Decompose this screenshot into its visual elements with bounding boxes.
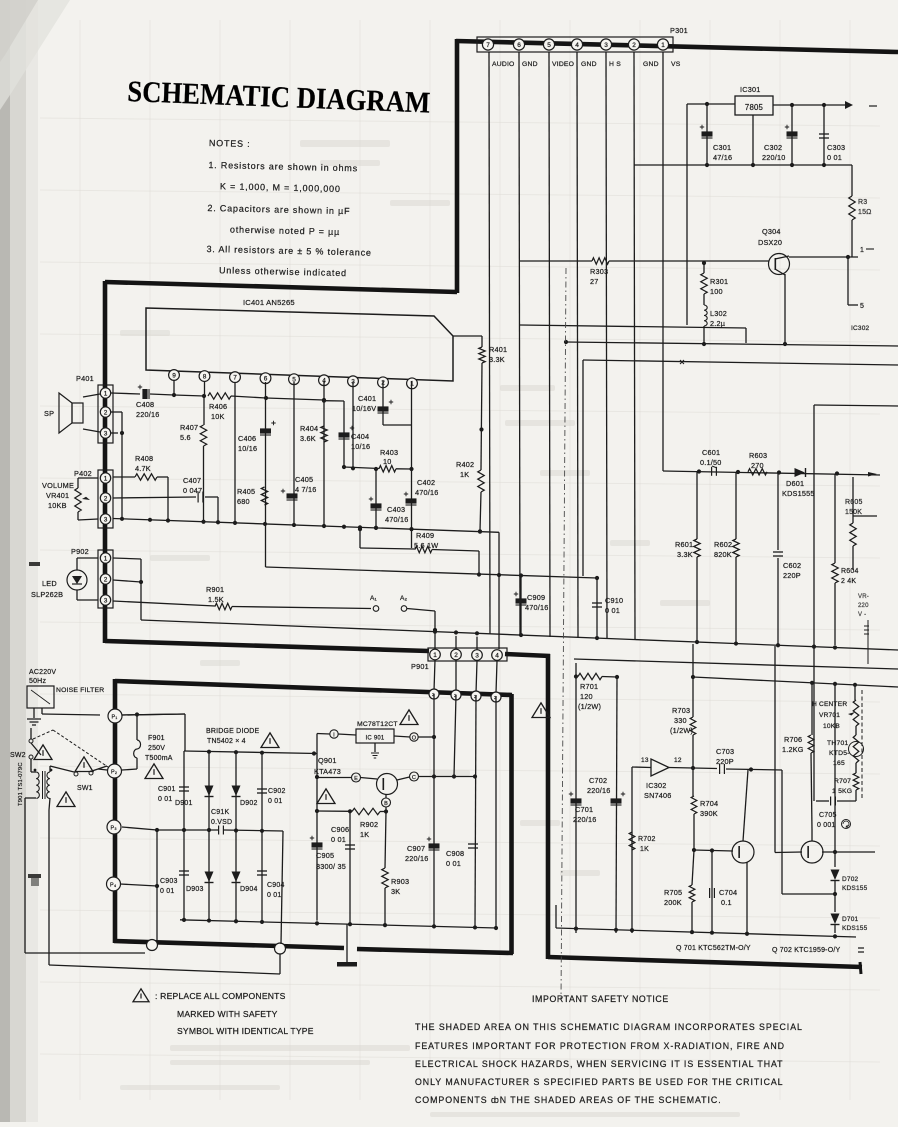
- wire IC401 pin4 drop: [323, 381, 325, 526]
- svg-text:IMPORTANT SAFETY NOTICE: IMPORTANT SAFETY NOTICE: [532, 994, 669, 1004]
- svg-text:1: 1: [410, 381, 414, 388]
- svg-text:2: 2: [104, 576, 108, 583]
- wire IC401 pin7 drop: [234, 382, 236, 523]
- svg-text:3.6K: 3.6K: [300, 434, 316, 443]
- svg-text:NOTES :: NOTES :: [209, 138, 251, 149]
- terminal P3: [107, 820, 121, 834]
- svg-text:C401: C401: [358, 394, 376, 403]
- capacitor C909: [514, 576, 549, 635]
- svg-text:2: 2: [454, 652, 458, 659]
- svg-text:D601: D601: [786, 479, 804, 488]
- svg-text:C302: C302: [764, 143, 782, 152]
- svg-text:KTA473: KTA473: [314, 767, 341, 776]
- fold dash-dot line: [561, 268, 566, 1000]
- svg-text:6: 6: [517, 42, 521, 49]
- svg-text:3.3K: 3.3K: [489, 355, 505, 364]
- wire GND from P301-4: [577, 52, 578, 638]
- svg-text:(1/2W): (1/2W): [670, 726, 693, 735]
- wire y325 branch: [520, 325, 746, 328]
- svg-text:IC301: IC301: [740, 85, 760, 94]
- wire P401-2 jog: [111, 411, 122, 413]
- resistor R705: [664, 850, 695, 932]
- svg-text:ELECTRICAL SHOCK HAZARDS, W: ELECTRICAL SHOCK HAZARDS, WHEN SERVICING…: [415, 1059, 784, 1069]
- capacitor C703: [716, 747, 782, 774]
- svg-text:D701: D701: [842, 916, 859, 923]
- capacitor C408: [111, 385, 174, 419]
- mechanical link dashed: [33, 730, 53, 739]
- svg-text:C402: C402: [417, 478, 435, 487]
- svg-text:1: 1: [104, 475, 108, 482]
- svg-text:I: I: [333, 733, 335, 739]
- svg-text:0 01: 0 01: [827, 153, 842, 162]
- warning triangle near F901: [145, 764, 163, 779]
- wire bus y575: [266, 567, 598, 578]
- svg-text:SP: SP: [44, 409, 54, 418]
- svg-text:0.1: 0.1: [721, 898, 732, 907]
- svg-text:220/16: 220/16: [587, 786, 611, 795]
- svg-text:0 01: 0 01: [158, 796, 172, 803]
- svg-text:C904: C904: [267, 882, 285, 889]
- svg-text:R601: R601: [675, 540, 693, 549]
- capacitor C407: [113, 476, 218, 522]
- svg-text:0 01: 0 01: [160, 888, 174, 895]
- warning triangle near SW2: [34, 745, 52, 760]
- diode D601: [782, 468, 815, 498]
- resistor R704: [691, 768, 718, 850]
- svg-text:220/16: 220/16: [405, 854, 429, 863]
- svg-text:R704: R704: [700, 799, 718, 808]
- wire R601 extension to bus: [696, 577, 698, 643]
- wire GND from P301-2: [634, 52, 635, 640]
- diode D902: [232, 752, 258, 830]
- wire transformer secondary bottom right: [49, 798, 50, 810]
- svg-text:C908: C908: [446, 849, 464, 858]
- warning triangle right of IC901: [532, 703, 550, 718]
- warning triangle transformer: [57, 792, 75, 807]
- ground stem power: [346, 924, 348, 962]
- svg-text:KDS1555: KDS1555: [782, 489, 815, 498]
- wire x475 vertical: [475, 695, 476, 927]
- wire mid bus left drop: [156, 830, 158, 941]
- wire base bus y811: [317, 810, 350, 812]
- svg-text:C403: C403: [387, 505, 405, 514]
- svg-text:COMPONENTS ȸN THE SHADED A: COMPONENTS ȸN THE SHADED AREAS OF THE SC…: [415, 1095, 722, 1105]
- svg-text:C902: C902: [268, 788, 286, 795]
- svg-text:4: 4: [495, 652, 499, 659]
- capacitor C91K series: [211, 809, 232, 835]
- svg-text:C601: C601: [702, 448, 720, 457]
- capacitor C705: [816, 797, 856, 830]
- inverter IC302 SN7406: [632, 757, 682, 800]
- svg-text:2: 2: [104, 409, 108, 416]
- svg-text:P₁: P₁: [112, 715, 118, 721]
- svg-text:3: 3: [104, 597, 108, 604]
- resistor R402: [456, 460, 484, 533]
- node O output circle: [410, 733, 418, 741]
- capacitor C302: [762, 105, 798, 165]
- svg-text:10KB: 10KB: [48, 501, 67, 510]
- svg-text:R605: R605: [845, 499, 863, 506]
- svg-text:0 01: 0 01: [446, 859, 461, 868]
- svg-text:Q304: Q304: [762, 227, 781, 236]
- dashed vertical right edge: [861, 690, 863, 800]
- resistor R706: [782, 682, 814, 830]
- svg-text:H S: H S: [609, 61, 621, 68]
- svg-text:D702: D702: [842, 876, 859, 883]
- svg-text:27: 27: [590, 277, 599, 286]
- warning triangle IC901: [400, 710, 418, 725]
- IC301 7805 regulator: [735, 85, 773, 115]
- capacitor C907: [405, 837, 440, 863]
- wire bottom bus 700: [556, 928, 856, 937]
- svg-text:1: 1: [860, 247, 864, 254]
- wire GND from P301-6: [519, 52, 520, 636]
- svg-text:3: 3: [104, 430, 108, 437]
- potentiometer VR701 H CENTER: [812, 685, 859, 730]
- wire Q304 emitter: [784, 274, 786, 344]
- svg-text:T901 TS1-079C: T901 TS1-079C: [18, 762, 24, 806]
- wire x496 vertical: [495, 696, 497, 928]
- svg-text:SYMBOL WITH IDENTICAL TYPE: SYMBOL WITH IDENTICAL TYPE: [177, 1026, 314, 1036]
- svg-text:1.2KG: 1.2KG: [782, 745, 804, 754]
- svg-text:KTD5-: KTD5-: [829, 750, 850, 757]
- wire IC401 pin5 drop: [293, 382, 295, 525]
- svg-text:165: 165: [833, 760, 845, 767]
- scan left gray band: [0, 0, 10, 1122]
- wire C701 vertical: [575, 677, 577, 934]
- wire transformer secondary bottom left: [25, 797, 36, 799]
- svg-text:220/16: 220/16: [573, 815, 597, 824]
- diode D701: [831, 881, 868, 933]
- wire P901-2 up: [455, 636, 457, 649]
- svg-text:H CENTER: H CENTER: [812, 701, 847, 708]
- svg-text:5: 5: [547, 42, 551, 49]
- svg-text:D903: D903: [186, 886, 204, 893]
- svg-text:R701: R701: [580, 682, 598, 691]
- right edge dashes: [864, 626, 869, 634]
- svg-text:10: 10: [383, 457, 392, 466]
- wire bridge mid bus left: [157, 829, 218, 831]
- wire y360 branch: [583, 360, 898, 365]
- svg-text:5.6: 5.6: [180, 433, 191, 442]
- svg-text:3K: 3K: [391, 887, 400, 896]
- connector P402: [74, 469, 113, 528]
- svg-text:R402: R402: [456, 460, 474, 469]
- wire transformer to SW1: [49, 766, 51, 772]
- svg-text:10KB: 10KB: [823, 723, 840, 730]
- svg-text:R407: R407: [180, 423, 198, 432]
- resistor R304 right edge: [849, 165, 872, 257]
- svg-text:10/16V: 10/16V: [352, 404, 376, 413]
- svg-text:C408: C408: [136, 400, 154, 409]
- wire IC901 to O: [394, 736, 410, 737]
- svg-text:1K: 1K: [460, 470, 469, 479]
- wire bus corner to P901-4: [498, 532, 500, 649]
- wire IC401 pin3 drop: [352, 382, 354, 468]
- resistor R602: [714, 472, 739, 578]
- svg-text:R705: R705: [664, 888, 682, 897]
- resistor R604: [832, 563, 859, 585]
- svg-text:470/16: 470/16: [385, 515, 409, 524]
- svg-text:LED: LED: [42, 579, 57, 588]
- resistor R707: [832, 763, 859, 801]
- wire to terminal S1: [147, 940, 158, 951]
- svg-text:390K: 390K: [700, 809, 718, 818]
- svg-text:7805: 7805: [745, 103, 764, 112]
- terminal 2b-1: [429, 689, 439, 699]
- svg-text:50Hz: 50Hz: [29, 678, 46, 685]
- svg-text:7: 7: [486, 42, 490, 49]
- capacitor C903: [160, 830, 189, 920]
- svg-text:AC220V: AC220V: [29, 669, 56, 676]
- power supply box border right: [509, 694, 514, 954]
- capacitor C702: [587, 776, 625, 805]
- svg-text:3: 3: [604, 42, 608, 49]
- shaded area border y641 to P901: [105, 641, 429, 651]
- wire R409 drop x479: [478, 551, 480, 575]
- shaded area border bottom right: [548, 957, 862, 967]
- svg-text:220/10: 220/10: [762, 153, 786, 162]
- svg-text:VOLUME: VOLUME: [42, 481, 74, 490]
- svg-text:C: C: [412, 775, 416, 781]
- resistor R903: [382, 812, 409, 926]
- svg-text:2: 2: [104, 495, 108, 502]
- capacitor C908: [446, 844, 478, 868]
- terminal P2: [108, 764, 122, 778]
- svg-text:R406: R406: [209, 402, 227, 411]
- legend replace text: [155, 991, 314, 1036]
- ground noise filter: [27, 719, 41, 725]
- svg-text:R602: R602: [714, 540, 732, 549]
- svg-text:SW2: SW2: [10, 752, 26, 759]
- resistor R405: [237, 487, 268, 506]
- wire IC301 input: [687, 103, 735, 105]
- svg-text:C404: C404: [351, 432, 369, 441]
- P301 signal labels: [492, 61, 681, 68]
- transistor Q702: [775, 830, 875, 863]
- svg-text:1: 1: [104, 555, 108, 562]
- svg-text:150K: 150K: [845, 509, 862, 516]
- power supply box border bottom right segment: [357, 949, 513, 953]
- svg-text:1K: 1K: [360, 830, 369, 839]
- capacitor C401: [352, 381, 411, 425]
- wire C703 branch to diodes: [781, 770, 783, 894]
- capacitor C905: [310, 836, 346, 871]
- svg-text:A₁: A₁: [370, 595, 378, 602]
- svg-text:A₂: A₂: [400, 595, 408, 602]
- right edge vertical x868: [867, 620, 869, 664]
- svg-text:SW1: SW1: [77, 785, 93, 792]
- wire Q304 collector to pin5 stub: [847, 257, 849, 305]
- resistor R404: [300, 424, 327, 443]
- wire A2 to P901-1: [407, 609, 435, 612]
- svg-text:R706: R706: [784, 735, 802, 744]
- svg-text:1: 1: [104, 390, 108, 397]
- capacitor C904: [257, 831, 285, 922]
- svg-text:C703: C703: [716, 747, 734, 756]
- svg-text:C704: C704: [719, 888, 737, 897]
- wire pin6-pin4 link: [266, 398, 324, 400]
- svg-text:680: 680: [237, 497, 250, 506]
- terminal P1: [108, 709, 122, 723]
- svg-text:C705: C705: [819, 812, 837, 819]
- svg-text:C901: C901: [158, 786, 176, 793]
- transformer T901: [18, 762, 52, 806]
- capacitor C303: [819, 105, 845, 165]
- speaker SP: [44, 393, 100, 433]
- terminal 2b-4: [491, 692, 501, 702]
- wire R405 column to bus575: [265, 524, 267, 567]
- resistor R409: [358, 527, 479, 553]
- wire bridge mid bus right: [224, 830, 283, 831]
- svg-text:D901: D901: [175, 800, 193, 807]
- node I input circle: [330, 730, 338, 738]
- svg-text:KDS155: KDS155: [842, 925, 868, 932]
- wire x814 long vertical: [813, 405, 815, 801]
- svg-text:Q 702 KTC1959-O/Y: Q 702 KTC1959-O/Y: [772, 947, 841, 954]
- wire y405 branch: [814, 405, 898, 406]
- resistor R702: [629, 832, 655, 853]
- wire mid bus to terminal S2: [281, 831, 283, 944]
- svg-text:0.VSD: 0.VSD: [211, 819, 232, 826]
- wire P401-2 drop: [121, 433, 123, 519]
- capacitor C901: [158, 751, 189, 830]
- svg-text:1: 1: [661, 42, 665, 49]
- svg-text:0 01: 0 01: [331, 835, 346, 844]
- svg-text:2.2µ: 2.2µ: [710, 319, 726, 328]
- wire y684 line: [693, 677, 898, 687]
- svg-text:200K: 200K: [664, 898, 682, 907]
- svg-text:MC78T12CT: MC78T12CT: [357, 721, 398, 728]
- LED SLP262B: [31, 558, 98, 600]
- svg-text:V -: V -: [858, 612, 866, 618]
- svg-text:3.3K: 3.3K: [677, 550, 693, 559]
- svg-text:470/16: 470/16: [525, 603, 549, 612]
- svg-text:220P: 220P: [783, 571, 801, 580]
- resistor R403: [344, 448, 414, 472]
- scan corner smudge: [0, 0, 70, 110]
- wire audio ground bus y519: [113, 519, 499, 533]
- svg-text:4 7/16: 4 7/16: [295, 485, 317, 494]
- capacitor C704: [710, 851, 738, 934]
- svg-text:B: B: [384, 801, 388, 807]
- svg-text:470/16: 470/16: [415, 488, 439, 497]
- svg-text:R409: R409: [416, 531, 434, 540]
- terminal 2b-2: [451, 690, 461, 700]
- terminal P4: [107, 877, 121, 891]
- svg-text:220: 220: [858, 603, 869, 609]
- svg-text:C91K: C91K: [211, 809, 229, 816]
- capacitor C701: [569, 792, 597, 824]
- svg-text:0 01: 0 01: [268, 798, 282, 805]
- svg-text:C701: C701: [575, 805, 593, 814]
- svg-text:47/16: 47/16: [713, 153, 732, 162]
- svg-text:C910: C910: [605, 596, 623, 605]
- resistor R408: [113, 454, 168, 521]
- safety notice paragraph: [415, 1022, 803, 1105]
- wire C602 extension to bus: [777, 579, 779, 645]
- svg-text:IC302: IC302: [851, 325, 870, 332]
- wire power ground bus: [180, 920, 497, 928]
- svg-text:15Ω: 15Ω: [858, 209, 872, 216]
- svg-text:MARKED WITH SAFETY: MARKED WITH SAFETY: [177, 1009, 278, 1019]
- wire Q701 base: [694, 850, 733, 851]
- svg-text:3: 3: [104, 516, 108, 523]
- svg-text:C406: C406: [238, 434, 256, 443]
- svg-text:C303: C303: [827, 143, 845, 152]
- diode D904: [232, 831, 258, 922]
- svg-text:8: 8: [203, 373, 207, 380]
- resistor R605: [845, 477, 877, 570]
- IC401 pins: [169, 370, 418, 389]
- svg-text:R401: R401: [489, 345, 507, 354]
- connector P902: [71, 547, 113, 608]
- svg-text:220/16: 220/16: [136, 410, 160, 419]
- svg-text:120: 120: [580, 692, 593, 701]
- svg-text:R404: R404: [300, 424, 318, 433]
- wire x184 feed: [184, 714, 186, 751]
- capacitor C602: [773, 473, 801, 581]
- svg-text:12: 12: [674, 757, 682, 764]
- notes block: [206, 138, 374, 279]
- resistor R303: [520, 258, 769, 286]
- wire P902-2 jog: [113, 580, 141, 582]
- svg-text:D902: D902: [240, 800, 258, 807]
- inductor L302: [702, 294, 727, 346]
- wire P901-3 up: [476, 637, 478, 650]
- wire B drop: [385, 807, 387, 811]
- svg-text:C602: C602: [783, 561, 801, 570]
- svg-text:R403: R403: [380, 448, 398, 457]
- svg-text:2 4K: 2 4K: [841, 578, 856, 585]
- wire x746 drop: [745, 328, 747, 343]
- fuse F901: [122, 712, 185, 770]
- svg-text:VR401: VR401: [46, 491, 69, 500]
- svg-text:IC302: IC302: [646, 781, 666, 790]
- resistor R701: [576, 663, 619, 711]
- diode D702: [831, 870, 868, 893]
- capacitor C906: [331, 811, 355, 924]
- IC901 MC78T12CT: [356, 721, 398, 743]
- svg-text:5: 5: [860, 303, 864, 310]
- shaded area border vertical x548: [546, 654, 551, 959]
- svg-text:D904: D904: [240, 886, 258, 893]
- node B circle: [382, 798, 391, 807]
- wire I to IC901: [317, 733, 330, 736]
- wire R602 extension to bus: [735, 578, 737, 644]
- svg-text:VS: VS: [671, 61, 681, 68]
- svg-text:ONLY MANUFACTURER S SPECIFIE: ONLY MANUFACTURER S SPECIFIED PARTS BE U…: [415, 1077, 784, 1087]
- resistor R703: [670, 644, 696, 768]
- op-amp IC401 AN5265 body: [146, 298, 453, 381]
- resistor R401: [453, 336, 507, 470]
- resistor R902: [352, 808, 386, 839]
- svg-text:: REPLACE ALL COMPONENTS: : REPLACE ALL COMPONENTS: [155, 991, 286, 1001]
- wire noise filter to P1: [41, 708, 43, 714]
- svg-text:250V: 250V: [148, 745, 165, 752]
- svg-text:E: E: [354, 776, 358, 782]
- svg-text:FEATURES IMPORTANT FOR PROT: FEATURES IMPORTANT FOR PROTECTION FROM X…: [415, 1041, 785, 1051]
- wire IC301 input drop x687: [686, 104, 688, 325]
- wire P4 link: [120, 884, 157, 886]
- svg-text:P402: P402: [74, 469, 92, 478]
- svg-text:R901: R901: [206, 585, 224, 594]
- capacitor C301: [700, 104, 732, 165]
- svg-text:SN7406: SN7406: [644, 791, 672, 800]
- capacitor C406: [238, 382, 276, 524]
- svg-text:P902: P902: [71, 547, 89, 556]
- terminal 2b-3: [471, 691, 481, 701]
